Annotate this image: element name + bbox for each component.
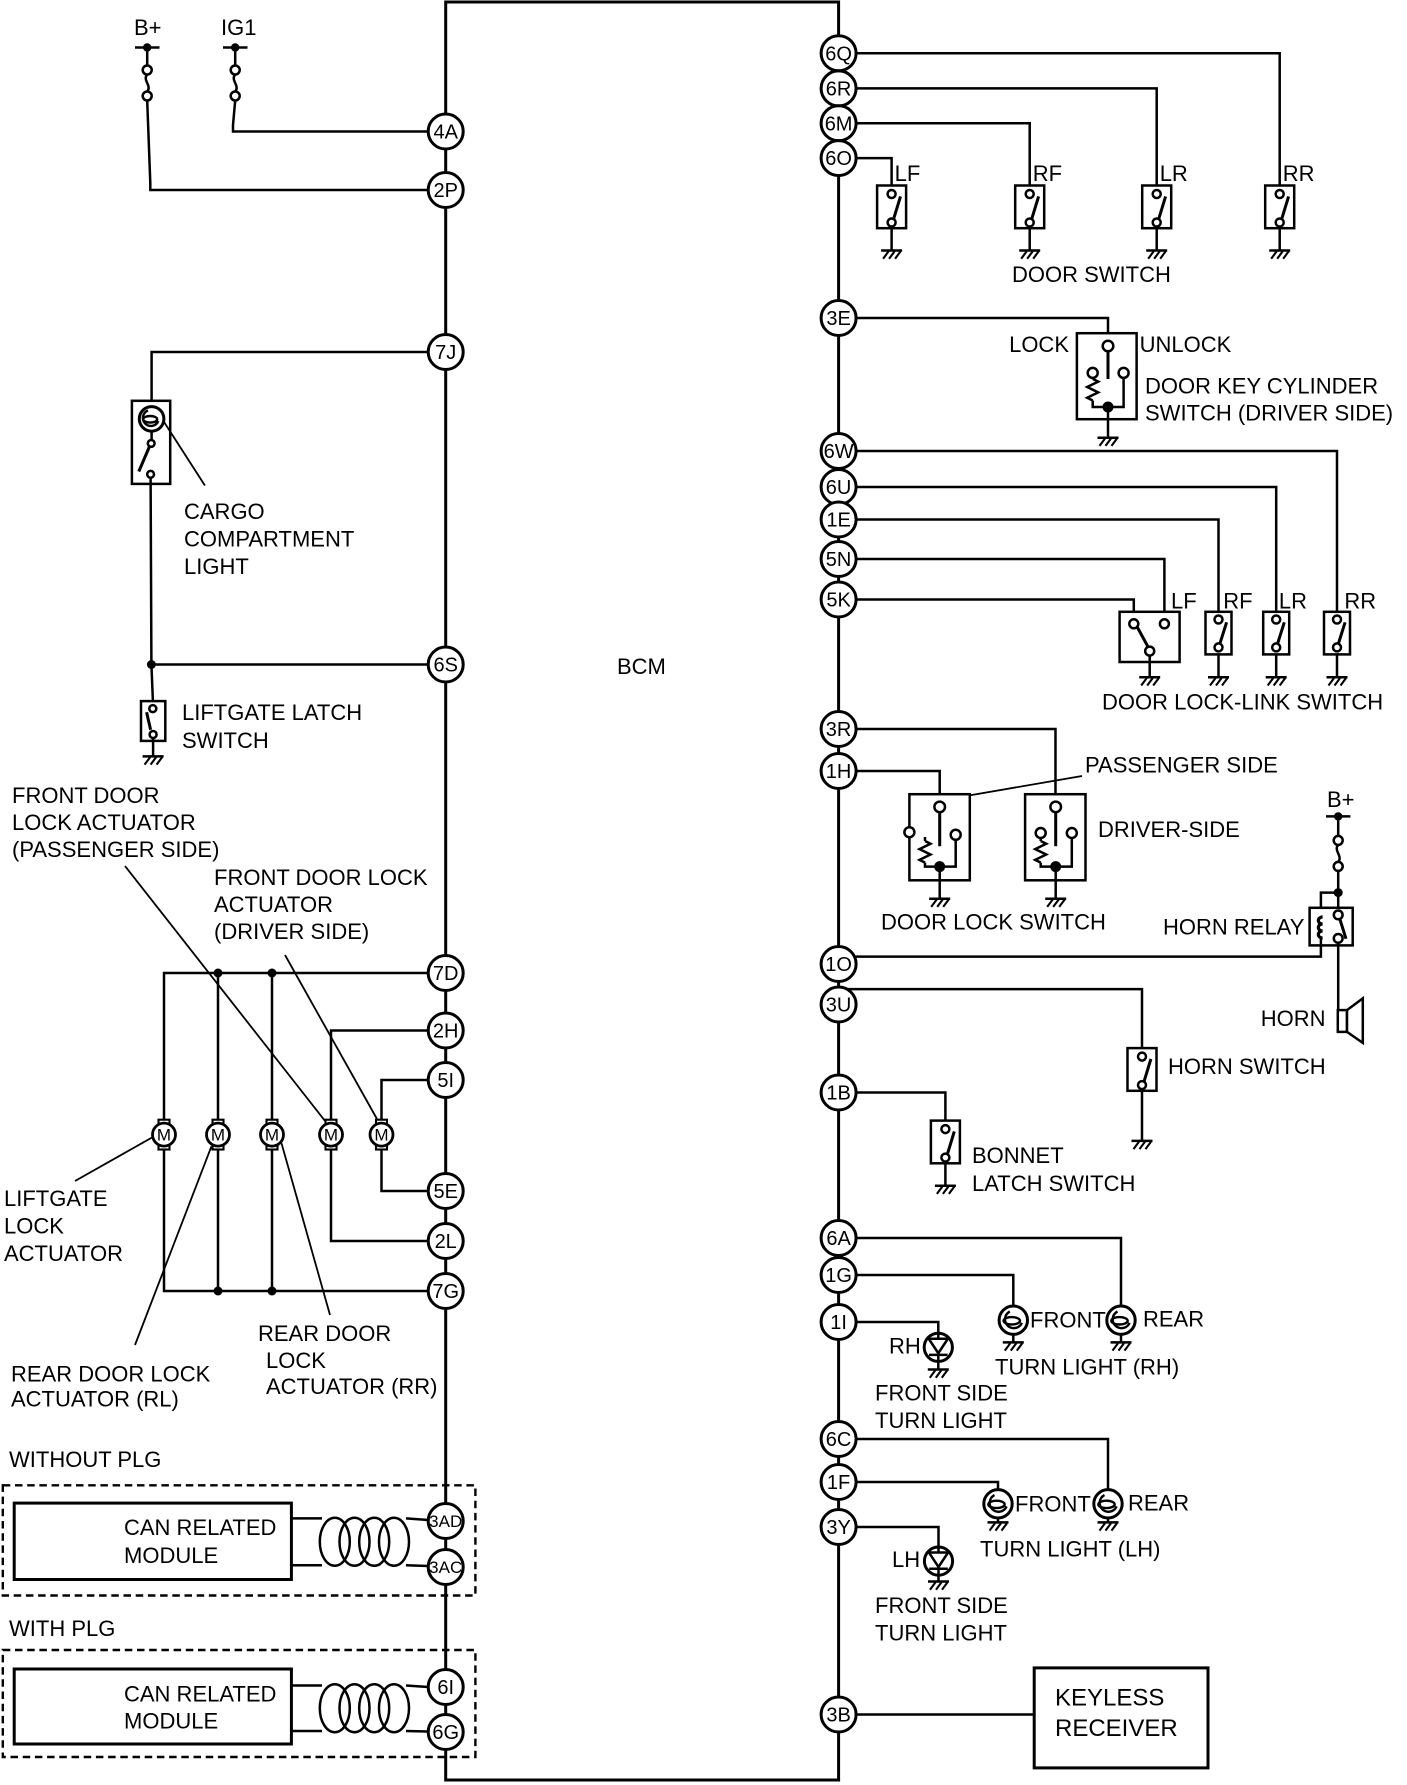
pin 4A bbox=[428, 114, 463, 149]
front side turn light LH (LED) bbox=[924, 1547, 952, 1575]
svg-text:2H: 2H bbox=[433, 1021, 459, 1043]
svg-text:5E: 5E bbox=[433, 1181, 457, 1203]
wire + ground (lock-link LR) bbox=[1275, 654, 1278, 677]
svg-text:(DRIVER SIDE): (DRIVER SIDE) bbox=[214, 919, 369, 944]
svg-text:CAN RELATED: CAN RELATED bbox=[124, 1682, 276, 1707]
svg-text:LIFTGATE LATCH: LIFTGATE LATCH bbox=[182, 700, 362, 725]
svg-text:MODULE: MODULE bbox=[124, 1543, 218, 1568]
svg-text:DOOR KEY CYLINDER: DOOR KEY CYLINDER bbox=[1145, 374, 1378, 399]
wire + ground (door switch RR) bbox=[1278, 228, 1281, 250]
svg-text:6G: 6G bbox=[432, 1722, 459, 1744]
node B+ (right) bbox=[1326, 787, 1355, 871]
svg-text:6U: 6U bbox=[826, 477, 852, 499]
twisted pair 2 coils bbox=[320, 1684, 409, 1732]
svg-text:B+: B+ bbox=[134, 15, 162, 40]
svg-text:1F: 1F bbox=[827, 1472, 850, 1494]
pin 1G bbox=[821, 1258, 856, 1293]
svg-text:3E: 3E bbox=[826, 308, 850, 330]
horn relay U1 bbox=[1310, 908, 1353, 946]
svg-text:1I: 1I bbox=[830, 1312, 847, 1334]
svg-text:FRONT DOOR LOCK: FRONT DOOR LOCK bbox=[214, 865, 428, 890]
svg-text:HORN SWITCH: HORN SWITCH bbox=[1168, 1054, 1326, 1079]
svg-text:6C: 6C bbox=[826, 1429, 852, 1451]
wire + ground (bonnet latch) bbox=[944, 1163, 947, 1185]
pin 6W bbox=[821, 434, 856, 469]
bonnet latch switch bbox=[931, 1121, 960, 1164]
wire + ground (rear turn LH) bbox=[1107, 1518, 1110, 1522]
svg-text:FRONT DOOR: FRONT DOOR bbox=[12, 783, 159, 808]
wire + ground (door switch RF) bbox=[1028, 228, 1031, 250]
svg-text:3AD: 3AD bbox=[429, 1512, 462, 1531]
wire 1F to front turn light LH bbox=[856, 1482, 998, 1490]
svg-text:7J: 7J bbox=[435, 342, 456, 364]
wire 5N to lock-link LF right bbox=[856, 559, 1164, 619]
wire relay to horn bbox=[1337, 943, 1340, 1010]
svg-text:SWITCH: SWITCH bbox=[182, 728, 269, 753]
svg-text:1O: 1O bbox=[825, 954, 852, 976]
svg-text:SWITCH (DRIVER SIDE): SWITCH (DRIVER SIDE) bbox=[1145, 401, 1393, 426]
pin 7D bbox=[428, 956, 463, 991]
svg-text:LIGHT: LIGHT bbox=[184, 554, 249, 579]
svg-text:3Y: 3Y bbox=[826, 1517, 850, 1539]
svg-text:3AC: 3AC bbox=[429, 1558, 462, 1577]
svg-text:LF: LF bbox=[895, 161, 921, 186]
svg-text:6A: 6A bbox=[826, 1228, 851, 1250]
svg-text:DOOR SWITCH: DOOR SWITCH bbox=[1012, 262, 1171, 287]
pin 3B bbox=[821, 1697, 856, 1732]
door switch RR bbox=[1265, 186, 1294, 229]
wire + ground (front side RH) bbox=[937, 1361, 940, 1369]
svg-text:7G: 7G bbox=[432, 1281, 459, 1303]
svg-text:HORN: HORN bbox=[1261, 1006, 1326, 1031]
pointer driver side actuator bbox=[285, 955, 377, 1119]
svg-text:ACTUATOR: ACTUATOR bbox=[4, 1241, 123, 1266]
front turn light RH bbox=[999, 1306, 1027, 1334]
svg-text:6O: 6O bbox=[825, 148, 852, 170]
pin 1H bbox=[821, 754, 856, 789]
wire 1H to passenger-side lock switch bbox=[856, 771, 940, 802]
svg-text:RECEIVER: RECEIVER bbox=[1055, 1715, 1178, 1742]
wire motor5 to 5E bbox=[382, 1150, 429, 1191]
svg-text:ACTUATOR (RR): ACTUATOR (RR) bbox=[266, 1374, 438, 1399]
dashed box with plg bbox=[3, 1650, 476, 1757]
pin 5E bbox=[428, 1174, 463, 1209]
twisted pair 1 wires bbox=[291, 1518, 428, 1566]
svg-text:5K: 5K bbox=[826, 590, 851, 612]
svg-text:6M: 6M bbox=[825, 113, 853, 135]
wire 1O to relay coil bbox=[855, 939, 1321, 957]
svg-text:TURN LIGHT: TURN LIGHT bbox=[875, 1408, 1007, 1433]
CAN related module box 2 bbox=[14, 1669, 291, 1744]
junction dot bbox=[268, 969, 277, 978]
motor rear door lock actuator RL bbox=[207, 1120, 230, 1150]
svg-text:LR: LR bbox=[1279, 589, 1307, 614]
door switch LR bbox=[1142, 186, 1171, 229]
pin 5N bbox=[821, 542, 856, 577]
svg-text:1E: 1E bbox=[826, 510, 850, 532]
junction dot bbox=[214, 969, 223, 978]
svg-text:RR: RR bbox=[1344, 589, 1376, 614]
svg-text:7D: 7D bbox=[433, 963, 459, 985]
node B+ (left) bbox=[134, 15, 162, 101]
wire + ground (key cylinder) bbox=[1107, 407, 1110, 438]
svg-text:REAR: REAR bbox=[1143, 1307, 1204, 1332]
wire B+ to 2P bbox=[147, 101, 428, 191]
wire 3Y to front side turn light LH bbox=[856, 1527, 938, 1547]
svg-text:LATCH SWITCH: LATCH SWITCH bbox=[972, 1171, 1135, 1196]
motor rear door lock actuator RR bbox=[261, 1120, 284, 1150]
wire 1B to bonnet latch switch bbox=[856, 1093, 945, 1121]
pin 2H bbox=[428, 1013, 463, 1048]
pin 6O bbox=[821, 141, 856, 176]
svg-text:3U: 3U bbox=[826, 995, 852, 1017]
pin 6C bbox=[821, 1422, 856, 1457]
wire 6R to LR door switch bbox=[856, 88, 1157, 185]
BCM box bbox=[446, 2, 839, 1780]
pin 1I bbox=[821, 1305, 856, 1340]
junction dot B+ branch bbox=[1334, 888, 1343, 897]
door switch LF bbox=[877, 186, 906, 229]
pointer passenger side actuator bbox=[125, 866, 329, 1126]
pin 3Y bbox=[821, 1510, 856, 1545]
svg-text:REAR DOOR: REAR DOOR bbox=[258, 1321, 391, 1346]
pin 2P bbox=[428, 173, 463, 208]
svg-text:FRONT SIDE: FRONT SIDE bbox=[875, 1381, 1008, 1406]
pin 6I bbox=[428, 1670, 463, 1705]
pin 6R bbox=[821, 71, 856, 106]
svg-text:RH: RH bbox=[889, 1334, 921, 1359]
junction dot bbox=[268, 1287, 277, 1296]
horn speaker bbox=[1338, 998, 1363, 1043]
wire 7J to cargo light bbox=[152, 352, 429, 401]
pin 1F bbox=[821, 1465, 856, 1500]
svg-text:LOCK ACTUATOR: LOCK ACTUATOR bbox=[12, 810, 196, 835]
svg-text:2L: 2L bbox=[435, 1231, 457, 1253]
svg-text:DOOR LOCK-LINK SWITCH: DOOR LOCK-LINK SWITCH bbox=[1102, 690, 1383, 715]
twisted pair 1 coils bbox=[320, 1518, 409, 1566]
pointer rear door lock actuator RL bbox=[135, 1146, 211, 1345]
svg-text:CARGO: CARGO bbox=[184, 499, 265, 524]
cargo compartment light bbox=[132, 401, 170, 484]
svg-text:(PASSENGER SIDE): (PASSENGER SIDE) bbox=[12, 837, 219, 862]
svg-text:B+: B+ bbox=[1327, 787, 1355, 812]
pointer cargo light label bbox=[164, 422, 205, 486]
svg-text:REAR DOOR LOCK: REAR DOOR LOCK bbox=[11, 1362, 211, 1387]
wire 1I to front side turn light RH bbox=[856, 1322, 938, 1333]
wire + ground (driver lock switch) bbox=[1054, 867, 1057, 899]
wire motor2 bottom bbox=[217, 1150, 220, 1291]
svg-text:UNLOCK: UNLOCK bbox=[1140, 332, 1232, 357]
wire + ground (door switch LR) bbox=[1155, 228, 1158, 250]
wire junction to 6S bbox=[151, 663, 428, 666]
svg-text:WITHOUT PLG: WITHOUT PLG bbox=[9, 1447, 161, 1472]
svg-text:FRONT SIDE: FRONT SIDE bbox=[875, 1593, 1008, 1618]
svg-text:6Q: 6Q bbox=[825, 43, 852, 65]
svg-text:LH: LH bbox=[892, 1547, 920, 1572]
svg-text:LR: LR bbox=[1160, 161, 1188, 186]
wire 3B to keyless receiver bbox=[856, 1713, 1034, 1716]
pointer liftgate lock actuator bbox=[75, 1138, 152, 1182]
wire IG1 to 4A bbox=[233, 101, 428, 132]
wire + ground (front turn LH) bbox=[997, 1518, 1000, 1522]
svg-text:6W: 6W bbox=[824, 441, 854, 463]
CAN related module box 1 bbox=[14, 1503, 291, 1579]
wire + ground (horn switch) bbox=[1141, 1091, 1144, 1141]
motor liftgate lock actuator bbox=[153, 1120, 176, 1150]
wire + ground (rear turn RH) bbox=[1120, 1334, 1123, 1342]
motor front door lock actuator passenger bbox=[320, 1120, 343, 1150]
door lock-link switch RR bbox=[1324, 612, 1350, 655]
pin 1O bbox=[821, 947, 856, 982]
pin 5I bbox=[428, 1063, 463, 1098]
twisted pair 2 wires bbox=[291, 1686, 428, 1732]
pin 6A bbox=[821, 1221, 856, 1256]
pin 3U bbox=[821, 987, 856, 1022]
wire 2H to motor4 bbox=[331, 1031, 428, 1120]
svg-text:TURN LIGHT: TURN LIGHT bbox=[875, 1621, 1007, 1646]
svg-text:FRONT: FRONT bbox=[1015, 1492, 1091, 1517]
svg-text:6S: 6S bbox=[433, 655, 457, 677]
rear turn light LH bbox=[1094, 1490, 1122, 1518]
wire motor3 bottom bbox=[271, 1150, 274, 1291]
pin 3R bbox=[821, 712, 856, 747]
pin 7J bbox=[428, 335, 463, 370]
svg-text:6I: 6I bbox=[437, 1677, 454, 1699]
liftgate latch switch bbox=[141, 701, 165, 741]
pin 6Q bbox=[821, 36, 856, 71]
wire + ground (front side LH) bbox=[937, 1575, 940, 1581]
svg-text:KEYLESS: KEYLESS bbox=[1055, 1685, 1164, 1712]
wire 6W to lock-link RR bbox=[856, 451, 1337, 612]
pin 7G bbox=[428, 1274, 463, 1309]
svg-text:MODULE: MODULE bbox=[124, 1709, 218, 1734]
pin 6M bbox=[821, 106, 856, 141]
svg-text:LIFTGATE: LIFTGATE bbox=[4, 1186, 108, 1211]
wire + ground (lock-link LF) bbox=[1148, 656, 1151, 678]
door lock-link switch LR bbox=[1263, 612, 1289, 655]
pin 6U bbox=[821, 470, 856, 505]
ground (liftgate latch) bbox=[143, 756, 164, 764]
wire + ground (passenger lock switch) bbox=[938, 867, 941, 899]
wire 5I to motor5 bbox=[382, 1080, 429, 1120]
svg-text:LOCK: LOCK bbox=[1009, 332, 1069, 357]
svg-text:DRIVER-SIDE: DRIVER-SIDE bbox=[1098, 817, 1240, 842]
wire + ground (door switch LF) bbox=[890, 228, 893, 250]
pin 3E bbox=[821, 301, 856, 336]
wire 6C to rear turn light LH bbox=[856, 1439, 1108, 1490]
door lock-link switch LF bbox=[1120, 612, 1180, 662]
motor front door lock actuator driver bbox=[370, 1120, 393, 1150]
wire 6M to RF door switch bbox=[856, 123, 1030, 185]
wire 3E to door key cylinder switch bbox=[856, 318, 1108, 341]
svg-text:6R: 6R bbox=[826, 78, 852, 100]
svg-text:FRONT: FRONT bbox=[1030, 1308, 1106, 1333]
svg-text:HORN RELAY: HORN RELAY bbox=[1163, 915, 1305, 940]
svg-text:LOCK: LOCK bbox=[4, 1214, 64, 1239]
svg-text:3R: 3R bbox=[826, 719, 852, 741]
svg-text:REAR: REAR bbox=[1128, 1491, 1189, 1516]
junction dot bbox=[147, 660, 156, 669]
door switch RF bbox=[1015, 186, 1044, 229]
wire motor3 top bbox=[271, 973, 274, 1120]
dashed box without plg bbox=[3, 1485, 476, 1595]
pin 1E bbox=[821, 502, 856, 537]
wire 3R to driver-side lock switch bbox=[856, 729, 1055, 802]
svg-text:RR: RR bbox=[1283, 161, 1315, 186]
front side turn light RH (LED) bbox=[924, 1333, 952, 1361]
svg-text:5I: 5I bbox=[437, 1070, 454, 1092]
svg-text:2P: 2P bbox=[433, 180, 457, 202]
wire 1G to front turn light RH bbox=[856, 1275, 1013, 1306]
svg-text:ACTUATOR: ACTUATOR bbox=[214, 892, 333, 917]
svg-text:4A: 4A bbox=[433, 122, 458, 144]
svg-text:3B: 3B bbox=[826, 1705, 850, 1727]
wire 6O to LF door switch bbox=[856, 158, 892, 185]
svg-text:ACTUATOR (RL): ACTUATOR (RL) bbox=[11, 1387, 179, 1412]
svg-text:BCM: BCM bbox=[617, 654, 666, 679]
pointer rear door lock actuator RR bbox=[282, 1143, 331, 1315]
pin 3AD bbox=[428, 1504, 463, 1539]
svg-text:LF: LF bbox=[1171, 589, 1197, 614]
svg-text:BONNET: BONNET bbox=[972, 1143, 1064, 1168]
wire 6Q to RR door switch bbox=[856, 53, 1280, 185]
wire 6A to rear turn light RH bbox=[856, 1238, 1121, 1306]
svg-text:1B: 1B bbox=[826, 1083, 850, 1105]
front turn light LH bbox=[984, 1490, 1012, 1518]
svg-text:TURN LIGHT (LH): TURN LIGHT (LH) bbox=[980, 1537, 1161, 1562]
keyless receiver box bbox=[1034, 1668, 1208, 1768]
wire + ground (front turn RH) bbox=[1012, 1334, 1015, 1342]
wire 6U to lock-link LR bbox=[856, 487, 1276, 612]
wire 3U to horn switch bbox=[847, 989, 1142, 1048]
svg-text:1H: 1H bbox=[826, 761, 852, 783]
svg-text:COMPARTMENT: COMPARTMENT bbox=[184, 527, 354, 552]
pin 6G bbox=[428, 1715, 463, 1750]
svg-text:CAN RELATED: CAN RELATED bbox=[124, 1515, 276, 1540]
svg-text:IG1: IG1 bbox=[221, 15, 256, 40]
door lock-link switch RF bbox=[1206, 612, 1232, 655]
wire B+ to horn relay bbox=[1337, 871, 1340, 911]
pin 2L bbox=[428, 1224, 463, 1259]
svg-text:WITH PLG: WITH PLG bbox=[9, 1616, 115, 1641]
node IG1 bbox=[221, 15, 256, 101]
svg-text:5N: 5N bbox=[826, 549, 852, 571]
pin 5K bbox=[821, 582, 856, 617]
junction dot bbox=[214, 1287, 223, 1296]
door lock switch driver side bbox=[1025, 794, 1085, 880]
wire 7G bus bbox=[164, 1150, 428, 1291]
svg-text:RF: RF bbox=[1223, 589, 1252, 614]
rear turn light RH bbox=[1107, 1306, 1135, 1334]
wire 7D bus bbox=[164, 973, 428, 1120]
svg-text:PASSENGER SIDE: PASSENGER SIDE bbox=[1085, 753, 1278, 778]
svg-text:RF: RF bbox=[1033, 161, 1062, 186]
wire + ground (lock-link RR) bbox=[1336, 654, 1339, 677]
pin 3AC bbox=[428, 1550, 463, 1585]
door lock switch passenger side bbox=[904, 794, 969, 880]
wire motor2 top bbox=[217, 973, 220, 1120]
wire + ground (lock-link RF) bbox=[1217, 654, 1220, 677]
svg-text:TURN LIGHT (RH): TURN LIGHT (RH) bbox=[995, 1355, 1179, 1380]
svg-text:LOCK: LOCK bbox=[266, 1348, 326, 1373]
door key cylinder switch (driver side) bbox=[1077, 333, 1137, 419]
wire liftgate latch to ground bbox=[152, 738, 155, 756]
wire 5K to lock-link LF left bbox=[856, 600, 1134, 620]
pin 1B bbox=[821, 1075, 856, 1110]
svg-text:1G: 1G bbox=[825, 1265, 852, 1287]
pin 6S bbox=[428, 647, 463, 682]
horn switch bbox=[1128, 1048, 1157, 1091]
wire motor4 to 2L bbox=[331, 1150, 428, 1241]
wire 1E to lock-link RF bbox=[856, 520, 1218, 612]
wire branch to relay coil bbox=[1321, 893, 1338, 917]
svg-text:DOOR LOCK SWITCH: DOOR LOCK SWITCH bbox=[881, 910, 1106, 935]
wire cargo light to junction to liftgate latch bbox=[151, 478, 153, 701]
